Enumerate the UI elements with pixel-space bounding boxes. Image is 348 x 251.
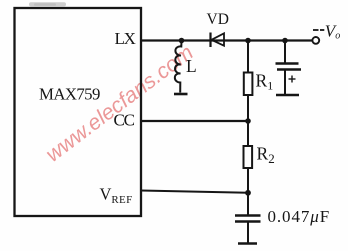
node junction VREF/R2/C2 (245, 190, 251, 196)
node junction cap C1 (282, 38, 288, 44)
svg-text:CC: CC (114, 111, 135, 130)
scan smudge above box (29, 2, 66, 6)
svg-text:R2: R2 (257, 144, 275, 166)
IC U1 MAX759 box (15, 8, 142, 216)
diode VD (211, 33, 225, 48)
wire to C2 (247, 193, 249, 215)
output label -Vo (313, 29, 324, 31)
capacitor C1 plates (276, 62, 299, 64)
svg-text:VREF: VREF (100, 185, 133, 207)
ground (C1) (276, 94, 299, 97)
resistor R1 (244, 73, 253, 96)
resistor R2 (244, 146, 253, 168)
wire to C1 (284, 41, 286, 64)
capacitor C2 plates (235, 214, 261, 217)
watermark www.elecfans.com (41, 40, 198, 166)
wire VREF (141, 191, 248, 193)
svg-text:Vo: Vo (325, 22, 340, 42)
ground (C2) (238, 242, 257, 245)
node junction at inductor (179, 38, 185, 44)
wire R1 to CC (247, 95, 249, 121)
wire C2 to ground (247, 222, 249, 243)
svg-text:R1: R1 (256, 71, 274, 93)
svg-text:MAX759: MAX759 (39, 85, 100, 104)
wire R2 to VREF node (247, 168, 249, 193)
wire C1 to ground (284, 70, 286, 95)
node junction diode/R1 (245, 38, 251, 44)
svg-text:0.047μF: 0.047μF (268, 207, 331, 226)
svg-text:www.elecfans.com: www.elecfans.com (41, 40, 198, 166)
ground (inductor) (174, 93, 188, 96)
capacitor C1 polarity + (289, 76, 296, 83)
wire CC to R2 (247, 121, 249, 146)
node junction CC/R1/R2 (245, 118, 251, 124)
svg-text:LX: LX (115, 29, 136, 48)
wire LX to output (141, 39, 312, 41)
output terminal -Vo (312, 37, 319, 44)
inductor L (175, 41, 182, 93)
wire CC (141, 120, 248, 122)
svg-text:VD: VD (207, 11, 229, 28)
svg-text:L: L (186, 56, 197, 76)
wire to R1 (247, 41, 249, 73)
